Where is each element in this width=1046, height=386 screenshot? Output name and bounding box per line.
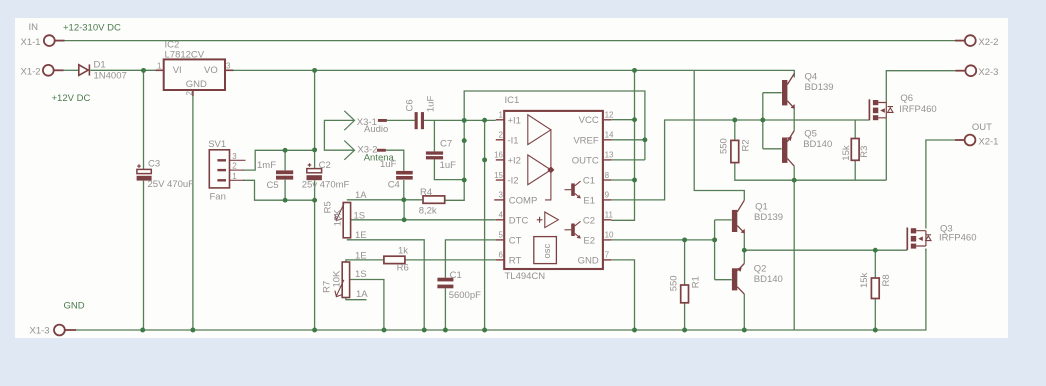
wire C6 to IC1 pin1 — [424, 119, 496, 121]
svg-text:SV1: SV1 — [208, 139, 226, 150]
pin header SV1 — [209, 150, 245, 188]
transistor Q4 BD139 — [782, 74, 795, 109]
svg-text:2: 2 — [185, 91, 194, 96]
wire VCC row — [611, 119, 634, 121]
capacitor C1 — [437, 278, 453, 289]
svg-text:X2-3: X2-3 — [978, 67, 998, 78]
mosfet Q6 IRFP460 — [869, 99, 893, 120]
svg-text:6: 6 — [499, 251, 504, 260]
wire C5 leads — [284, 150, 286, 170]
svg-text:1: 1 — [232, 172, 237, 181]
resistor R6 — [384, 256, 405, 263]
svg-text:X2-2: X2-2 — [978, 37, 998, 48]
svg-text:3: 3 — [499, 191, 504, 200]
svg-text:X1-1: X1-1 — [21, 37, 41, 48]
svg-text:Q5: Q5 — [804, 128, 817, 139]
svg-text:IC1: IC1 — [505, 95, 520, 106]
resistor R2 — [731, 140, 739, 162]
wire +12V drop to C2 pin — [611, 70, 634, 220]
wire Q4 emitter junction — [793, 108, 795, 130]
wire gate row to Q6 — [794, 119, 869, 121]
wire OUTC row — [611, 159, 645, 161]
svg-text:1uF: 1uF — [426, 96, 437, 113]
wire Q4 Q5 base stubs — [763, 92, 782, 94]
wire R2 bottom to mid rail — [735, 163, 887, 180]
svg-text:+I1: +I1 — [508, 115, 521, 126]
wire C1 pin row — [611, 179, 634, 181]
svg-text:GND: GND — [578, 256, 599, 267]
wire R7 1A stub — [346, 298, 367, 300]
potentiometer R5 — [335, 203, 351, 238]
wire C7 top lead — [433, 120, 435, 151]
right side labels — [668, 37, 998, 291]
wire C2 leads — [314, 70, 316, 168]
svg-text:10K: 10K — [332, 270, 343, 288]
wire audio input approach — [324, 120, 354, 150]
IC1 internal comparator 2 — [528, 155, 551, 185]
svg-text:VI: VI — [173, 65, 182, 76]
svg-text:25V 470uF: 25V 470uF — [148, 179, 195, 190]
svg-text:X1-2: X1-2 — [21, 66, 41, 77]
connector X1-2 — [43, 65, 64, 76]
svg-text:BD139: BD139 — [805, 82, 834, 93]
wire SV1 pin1 to gnd rail — [243, 180, 315, 200]
svg-text:R6: R6 — [397, 263, 409, 274]
svg-text:OUT: OUT — [972, 122, 992, 133]
wire Q6 drain to X2-3 — [886, 71, 955, 103]
wire net +12V rail from D1 to IC2 and right — [64, 69, 79, 71]
diode D1 — [79, 64, 90, 75]
wire net X1-1 to X2-2 top rail — [65, 40, 956, 42]
wire R6 to RT — [405, 259, 496, 261]
capacitor C4 — [396, 171, 413, 180]
wire CT to C1 — [445, 240, 495, 278]
svg-text:osc: osc — [542, 243, 553, 258]
voltage regulator IC2 L7812CV — [155, 59, 233, 96]
capacitor C2 polarized — [307, 163, 322, 180]
wire Q3 drain to X2-1 — [926, 140, 955, 229]
svg-text:3: 3 — [232, 152, 237, 161]
svg-text:10K: 10K — [333, 209, 344, 227]
svg-text:8: 8 — [605, 171, 610, 180]
svg-text:Audio: Audio — [364, 124, 388, 135]
wire R1 leads — [684, 240, 686, 285]
svg-text:OUTC: OUTC — [572, 155, 599, 166]
svg-text:-I1: -I1 — [508, 135, 519, 146]
wire X3-1 to C6 — [387, 119, 415, 121]
wire C7 bottom lead to pin15 node — [434, 159, 464, 180]
svg-text:Q4: Q4 — [805, 72, 818, 83]
svg-text:C1: C1 — [583, 176, 595, 187]
svg-text:4: 4 — [499, 211, 504, 220]
IC1 internal dtc comparator — [537, 212, 559, 228]
svg-text:1E: 1E — [355, 230, 367, 241]
wire R8 leads — [874, 250, 876, 278]
wire DTC link vertical — [403, 200, 405, 220]
wire C3 branch — [143, 70, 145, 169]
svg-text:BD139: BD139 — [754, 212, 783, 223]
svg-text:R3: R3 — [859, 146, 870, 158]
svg-text:DTC: DTC — [509, 215, 529, 226]
svg-text:1uF: 1uF — [440, 160, 457, 171]
svg-text:1A: 1A — [355, 190, 367, 201]
svg-text:8,2k: 8,2k — [419, 206, 437, 217]
svg-text:RT: RT — [509, 256, 522, 267]
IC1 pin stubs — [494, 120, 611, 260]
wire R7 top to R6 — [346, 260, 384, 262]
svg-text:X2-1: X2-1 — [978, 136, 998, 147]
wire R3 bottom lead — [854, 161, 856, 181]
svg-text:2: 2 — [232, 162, 237, 171]
svg-text:C7: C7 — [440, 139, 452, 150]
svg-text:VO: VO — [204, 65, 218, 76]
capacitor C5 — [276, 170, 293, 179]
IC1 pin names — [508, 115, 599, 266]
wire GND pin to bus — [611, 260, 634, 330]
wire IC2 GND to bus — [192, 96, 194, 330]
capacitor C3 polarized — [137, 164, 152, 180]
svg-text:D1: D1 — [94, 59, 106, 70]
svg-text:GND: GND — [64, 301, 85, 312]
svg-text:L7812CV: L7812CV — [165, 49, 205, 60]
svg-text:GND: GND — [186, 79, 207, 90]
svg-text:C2: C2 — [319, 160, 331, 171]
svg-text:C5: C5 — [267, 180, 279, 191]
svg-text:1S: 1S — [354, 210, 366, 221]
svg-text:R4: R4 — [420, 187, 432, 198]
svg-text:16: 16 — [494, 151, 503, 160]
svg-text:7: 7 — [605, 251, 610, 260]
svg-text:Q6: Q6 — [900, 93, 913, 104]
svg-text:1k: 1k — [398, 246, 408, 257]
svg-text:1mF: 1mF — [257, 160, 276, 171]
resistor R8 — [871, 278, 879, 299]
svg-text:C4: C4 — [388, 180, 400, 191]
wire Q3 source to bus corner — [925, 249, 927, 251]
potentiometer R7 — [335, 262, 350, 298]
svg-text:25v 470mF: 25v 470mF — [302, 180, 350, 191]
wire R3 top lead — [854, 120, 856, 138]
svg-text:13: 13 — [605, 151, 614, 160]
wire Q2 collector to bus — [743, 294, 745, 330]
wire Q6 source to mid rail — [885, 118, 887, 180]
svg-text:1S: 1S — [355, 269, 367, 280]
connector pin X3-2 — [377, 149, 386, 152]
svg-text:1: 1 — [499, 111, 504, 120]
IC1 internal transistor 1 — [565, 181, 581, 198]
IC1 internal comp output wire — [545, 130, 551, 200]
resistor R1 — [681, 285, 689, 303]
svg-text:IRFP460: IRFP460 — [939, 233, 977, 244]
svg-text:2: 2 — [499, 131, 504, 140]
capacitor C7 — [426, 151, 443, 159]
wire R2 top lead — [734, 120, 736, 140]
svg-text:10: 10 — [605, 231, 614, 240]
wire R5 1A row to R4 — [347, 199, 423, 201]
svg-text:R2: R2 — [741, 139, 752, 151]
wire R4 right to feedback node — [445, 91, 645, 200]
svg-text:IRFP460: IRFP460 — [899, 104, 937, 115]
IC1 internal oscillator box — [534, 237, 557, 264]
resistor R4 — [423, 196, 445, 203]
svg-text:+12-310V DC: +12-310V DC — [63, 22, 121, 33]
connector X2-3 — [955, 65, 976, 76]
connector X2-1 — [955, 135, 975, 146]
connector X1-3 — [54, 325, 76, 336]
svg-text:+I2: +I2 — [508, 156, 521, 167]
wire +12V vertical to Q1 collector — [694, 70, 744, 200]
svg-text:1uF: 1uF — [380, 159, 397, 170]
svg-text:BD140: BD140 — [754, 274, 783, 285]
wire C4 bottom — [403, 180, 405, 200]
wire GND reference vertical — [484, 120, 486, 330]
svg-text:1: 1 — [157, 61, 162, 70]
svg-text:TL494CN: TL494CN — [505, 271, 546, 282]
wire C1 bottom — [444, 288, 446, 330]
svg-text:12: 12 — [605, 111, 614, 120]
wire E2 row — [611, 239, 714, 241]
IC1 pin numbers — [494, 111, 614, 260]
resistor R3 — [851, 139, 859, 161]
svg-text:E1: E1 — [583, 195, 595, 206]
wire VREF row — [611, 139, 645, 141]
capacitor C6 — [415, 112, 424, 129]
svg-text:15k: 15k — [859, 272, 870, 288]
wire Q1 Q2 base link — [714, 220, 716, 280]
svg-text:C2: C2 — [583, 215, 595, 226]
wire R5 1E to bus — [347, 240, 424, 330]
arrow X3-1 chevron — [344, 111, 354, 130]
wire GND bus — [76, 249, 926, 330]
connector X2-2 — [955, 35, 976, 46]
svg-text:11: 11 — [605, 211, 614, 220]
svg-text:3: 3 — [226, 62, 231, 71]
svg-text:IN: IN — [29, 22, 39, 33]
wire R7 wiper to bus — [350, 280, 384, 331]
svg-text:+12V DC: +12V DC — [52, 93, 91, 104]
svg-text:Q1: Q1 — [755, 201, 768, 212]
arrow X3-2 chevron — [344, 141, 354, 160]
wire SV1 pin2 to 12V rail — [243, 150, 315, 170]
svg-text:E2: E2 — [583, 235, 595, 246]
wire gate row Q1 Q2 emitters to Q3 gate — [743, 233, 745, 264]
svg-text:550: 550 — [668, 275, 679, 291]
transistor Q2 BD140 — [732, 264, 744, 295]
transistor Q1 BD139 — [732, 200, 745, 233]
IC1 internal comparator 1 — [528, 115, 551, 145]
IC1 TL494CN body — [504, 111, 603, 269]
wire X3-2 to C4 — [386, 150, 404, 171]
svg-text:VREF: VREF — [573, 135, 599, 146]
svg-text:9: 9 — [605, 191, 610, 200]
svg-text:C1: C1 — [450, 270, 462, 281]
connector X1-1 — [44, 35, 65, 46]
svg-text:550: 550 — [719, 138, 730, 154]
svg-text:1A: 1A — [356, 289, 368, 300]
svg-text:X1-3: X1-3 — [30, 326, 50, 337]
svg-text:C3: C3 — [148, 158, 160, 169]
svg-text:1E: 1E — [355, 251, 367, 262]
wire Q5 collector to bus — [793, 166, 795, 330]
wire R5 wiper to DTC — [351, 219, 496, 221]
svg-text:COMP: COMP — [509, 195, 538, 206]
wire E1 row to driver bases — [611, 120, 794, 200]
connector pin X3-1 — [378, 119, 387, 122]
transistor Q5 BD140 — [782, 131, 794, 167]
svg-text:-I2: -I2 — [508, 176, 519, 187]
svg-text:5: 5 — [499, 231, 504, 240]
svg-text:15k: 15k — [841, 145, 852, 161]
svg-text:Q2: Q2 — [754, 264, 767, 275]
svg-text:R8: R8 — [881, 274, 892, 286]
svg-text:BD140: BD140 — [803, 139, 832, 150]
IC1 internal transistor 2 — [565, 221, 581, 238]
mosfet Q3 IRFP460 — [907, 228, 931, 251]
svg-text:5600pF: 5600pF — [449, 290, 481, 301]
svg-text:VCC: VCC — [579, 115, 599, 126]
svg-text:Fan: Fan — [210, 192, 226, 203]
svg-text:14: 14 — [605, 131, 614, 140]
svg-text:1N4007: 1N4007 — [94, 70, 127, 81]
svg-text:CT: CT — [509, 235, 522, 246]
svg-text:15: 15 — [494, 171, 503, 180]
svg-text:C6: C6 — [404, 99, 415, 111]
svg-text:R1: R1 — [690, 276, 701, 288]
